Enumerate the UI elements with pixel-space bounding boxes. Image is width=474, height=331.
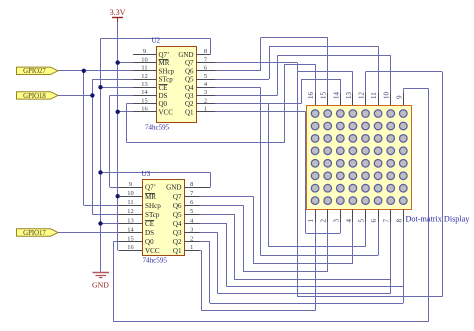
wire to matrix top pin 12 [365,72,367,93]
pin matrix bottom 6 [378,210,380,223]
pin U2.11 (SHcp) [133,70,156,72]
svg-text:Q6: Q6 [185,67,194,75]
pin matrix bottom 7 [390,210,392,223]
pin matrix top 15 [327,93,329,105]
wire U2 Q0 run [127,142,285,144]
wire GND top rail [101,38,211,40]
junction GND-U2 CE [98,85,102,89]
svg-text:11: 11 [141,65,147,72]
pin U2.3 (Q3) [196,95,215,97]
svg-text:12: 12 [141,73,147,80]
svg-text:5: 5 [190,208,193,215]
svg-text:2: 2 [320,219,328,223]
svg-text:6: 6 [190,199,193,206]
wire U2 Q5 up [269,46,271,79]
wire loop bottom rail [297,296,442,298]
svg-text:MR: MR [159,59,170,67]
wire STcp vertical [92,79,94,214]
svg-text:74hc595: 74hc595 [143,257,168,265]
wire U2 pin8 drop [210,38,212,54]
port GPIO17 [17,229,59,237]
wire to matrix top pin9 [403,88,428,90]
port GPIO27 [17,67,59,75]
svg-text:11: 11 [127,199,133,206]
pin U2.5 (Q5) [196,79,215,81]
svg-text:5: 5 [204,73,207,80]
svg-text:Q0: Q0 [159,100,168,108]
wire U2 Q5 out [215,79,269,81]
pin U3.12 (STcp) [119,214,143,216]
svg-text:Q4: Q4 [185,84,194,92]
pin U3.10 (MR) [119,196,143,198]
svg-text:Q5: Q5 [185,76,194,84]
pin matrix top 10 [390,93,392,105]
svg-text:16: 16 [127,244,133,251]
pin U3.3 (Q3) [184,232,200,234]
svg-text:CE: CE [159,84,168,92]
svg-text:CE: CE [145,220,154,228]
svg-text:GND: GND [166,184,181,192]
wire to U3 SHcp [84,205,119,207]
svg-text:6: 6 [370,219,378,223]
wire right outer vertical [428,89,430,322]
pin U3.13 (CE) [119,223,143,225]
svg-text:Q0: Q0 [145,238,154,246]
svg-text:2: 2 [190,235,193,242]
wire bottom pin2 rise [327,222,329,272]
svg-text:3: 3 [190,226,193,233]
ic U2 body [157,47,197,123]
wire bottom outer rail [113,321,428,323]
wire GND vertical [100,38,102,271]
svg-text:14: 14 [127,226,134,233]
wire GPIO27 vertical [83,71,85,206]
wire U2 Q6 up [260,38,262,71]
wire rail to bottom pin6 [260,255,378,257]
wire bottom pin4 rise [352,222,354,264]
wire U3 Q7 out [200,196,254,198]
wire U3 Q4 rail [227,286,403,288]
svg-text:8: 8 [204,48,207,55]
wire rail to top pin12 [366,71,443,73]
wire 3.3V vertical [117,22,119,250]
svg-text:STcp: STcp [159,76,174,84]
wire U3 Q0 stub left [113,241,118,243]
wire rail to bottom pin5 [269,246,366,248]
wire U2 Q0 stub left [127,103,134,105]
svg-text:12: 12 [127,208,133,215]
wire U2 Q2 out [215,103,301,105]
pin matrix top 16 [315,93,317,105]
wire U2 Q2 up [301,79,303,104]
wire U2 Q6 out [215,70,261,72]
svg-text:GPIO17: GPIO17 [23,230,46,237]
svg-text:Q7: Q7 [185,59,194,67]
svg-text:15: 15 [127,235,133,242]
wire U3 Q7 down [253,196,255,264]
svg-text:8: 8 [395,219,403,223]
pin U2.6 (Q6) [196,70,215,72]
svg-text:Q7’: Q7’ [159,51,170,59]
pin matrix bottom 8 [403,210,405,223]
wire bottom pin6 rise [378,222,380,255]
svg-text:SHcp: SHcp [145,202,161,210]
ic U3 body [143,180,185,256]
wire rail to bottom pin3 [306,233,341,235]
svg-text:U2: U2 [152,37,161,45]
pin matrix top 11 [378,93,380,105]
wire GPIO17 to U3 DS [58,232,119,234]
junction 3.3V-U2 VCC [116,110,120,114]
junction 3.3V-U3 MR [116,194,120,198]
svg-text:14: 14 [332,92,340,100]
wire rail to top pin10 [277,55,390,57]
pin U2.2 (Q2) [196,103,215,105]
svg-text:16: 16 [307,92,315,100]
svg-text:10: 10 [127,190,133,197]
pin U3.6 (Q6) [184,205,200,207]
junction GND-U3 CE [98,221,102,225]
pin U2.8 (GND) [196,54,210,56]
wire bottom pin3 rise [340,222,342,233]
wire rail to top pin14 [301,79,340,81]
svg-text:Q2: Q2 [185,100,194,108]
svg-text:Q3: Q3 [173,229,182,237]
svg-text:15: 15 [141,97,147,104]
wire U3 Q6 down [243,205,245,271]
wire U2 Q3 out [215,95,277,97]
wire U3 Q3 out [200,232,218,234]
wire bottom pin1 rise [315,222,317,311]
pin matrix bottom 4 [352,210,354,223]
svg-text:13: 13 [345,92,353,100]
wire to matrix top pin 16 [315,64,317,93]
svg-text:7: 7 [383,219,391,223]
wire to matrix top pin 14 [340,79,342,93]
pin matrix bottom 3 [340,210,342,223]
svg-text:Q6: Q6 [173,202,182,210]
svg-text:12: 12 [358,92,366,100]
pin U2.14 (DS) [133,95,156,97]
wire bottom pin5 rise [365,222,367,247]
svg-text:Q5: Q5 [173,211,182,219]
wire U2 DS to U3 Q7' vertical [109,95,111,187]
wire U3 pin8 drop [210,172,212,187]
svg-text:Dot-matrix Display: Dot-matrix Display [406,215,471,224]
junction 3.3V-U2 MR [116,60,120,64]
wire loop right vertical [442,72,444,297]
svg-text:VCC: VCC [159,108,174,116]
wire GPIO18 horizontal [58,95,92,97]
svg-text:Q1: Q1 [173,247,182,255]
svg-text:1: 1 [307,219,315,223]
wire U3 Q4 down [226,224,228,287]
port GPIO18 [17,92,59,100]
pin U2.16 (VCC) [133,111,156,113]
junction GND-U3 GND [98,170,102,174]
pin U3.15 (Q0) [119,241,143,243]
svg-text:11: 11 [370,92,378,99]
pin U3.8 (GND) [184,187,210,189]
pin U3.14 (DS) [119,232,143,234]
pin U3.16 (VCC) [119,250,143,252]
pin matrix top 13 [352,93,354,105]
wire bottom pin7 rise [390,222,392,294]
pin U2.10 (MR) [133,62,156,64]
wire U3 Q2 down [209,242,211,304]
svg-text:74hc595: 74hc595 [145,124,170,132]
junction GPIO27 branch [82,69,86,73]
wire to matrix top pin 10 [390,55,392,93]
svg-text:4: 4 [345,219,353,223]
pin U3.7 (Q7) [184,196,200,198]
ground GND [92,273,109,290]
wire U2 Q0 rise [284,64,286,142]
wire U2 Q0 drop [126,104,128,143]
wire rail to bottom pin1 [201,310,315,312]
svg-text:2: 2 [204,97,207,104]
svg-text:MR: MR [145,193,156,201]
pin U2.7 (Q7) [196,62,215,64]
wire U2 DS horizontal [110,95,133,97]
svg-text:Q4: Q4 [173,220,182,228]
pin matrix top 14 [340,93,342,105]
wire 3.3V to U2 MR [118,62,133,64]
svg-text:14: 14 [141,89,148,96]
svg-text:GND: GND [92,281,109,290]
wire U3 Q1 out [200,250,202,252]
svg-text:SHcp: SHcp [159,67,175,75]
wire U3 Q5 rail [235,279,391,281]
wire U2 Q7 out [215,62,297,64]
wire U2 Q1 out [215,111,306,113]
wire U3 Q4 out [200,223,227,225]
wire to U2 STcp [92,79,133,81]
pin U3.4 (Q4) [184,223,200,225]
svg-text:5: 5 [358,219,366,223]
wire U2 Q3 up [277,55,279,95]
wire to matrix top pin 13 [352,72,354,93]
wire to matrix top pin 11 [378,46,380,93]
wire U3 Q3 down [217,233,219,294]
svg-text:STcp: STcp [145,211,160,219]
wire U3 Q2 out [200,241,210,243]
wire U3 Q0 vertical [113,242,115,322]
svg-text:DS: DS [145,229,154,237]
svg-text:9: 9 [129,181,132,188]
svg-text:3: 3 [332,219,340,223]
svg-text:GND: GND [178,51,193,59]
pin matrix bottom 5 [365,210,367,223]
svg-text:3: 3 [204,89,207,96]
dot-matrix body [307,106,412,210]
pin U3.5 (Q5) [184,214,200,216]
wire 3.3V to U2 VCC [118,111,133,113]
wire rail to bottom pin7 [218,293,391,295]
svg-text:6: 6 [204,65,207,72]
wire U3 Q5 out [200,214,235,216]
svg-text:Q2: Q2 [173,238,182,246]
svg-text:U3: U3 [142,170,151,178]
svg-text:13: 13 [141,81,147,88]
wire U3 Q1 down [201,250,203,310]
wire rail to top pin13 [297,71,353,73]
wire U3 Q5 down [234,214,236,280]
wire bottom pin8 rise [403,222,405,303]
svg-text:13: 13 [127,217,133,224]
svg-text:Q1: Q1 [185,108,194,116]
svg-text:GPIO18: GPIO18 [23,93,46,100]
pin U3.9 (Q7’) [119,187,143,189]
wire GND to U2 CE [101,87,134,89]
pin U3.11 (SHcp) [119,205,143,207]
wire mid descender B [268,104,270,247]
pin U2.9 (Q7’) [133,54,156,56]
pin U3.1 (Q1) [184,250,200,252]
svg-text:15: 15 [320,92,328,100]
pin U2.12 (STcp) [133,79,156,81]
wire GND to U3 GND branch [101,172,211,174]
wire U2 Q7 long vertical [297,63,299,297]
svg-text:9: 9 [143,48,146,55]
wire to matrix top pin 9 [403,89,405,93]
pin U2.15 (Q0) [133,103,156,105]
junction GPIO18 branch [90,93,94,97]
wire rail to top pin16 [285,64,315,66]
pin matrix top 12 [365,93,367,105]
pin matrix top 9 [403,93,405,105]
svg-text:9: 9 [395,95,403,99]
svg-text:3.3V: 3.3V [110,8,126,17]
wire U3 Q6 out [200,205,244,207]
wire U2 Q4 down [260,87,262,255]
svg-text:1: 1 [204,106,207,113]
svg-text:Q7’: Q7’ [145,184,156,192]
svg-text:Q3: Q3 [185,92,194,100]
wire GPIO27 to U2 SHcp [58,70,133,72]
svg-text:DS: DS [159,92,168,100]
wire rail to bottom pin4 [253,263,353,265]
svg-text:16: 16 [141,106,147,113]
svg-text:Q7: Q7 [173,193,182,201]
svg-text:1: 1 [190,244,193,251]
wire rail to top pin15 [261,37,328,39]
pin U2.1 (Q1) [196,111,215,113]
wire to U3 Q7' [110,187,119,189]
wire to U3 STcp [92,214,118,216]
pin U2.13 (CE) [133,87,156,89]
pin matrix bottom 2 [327,210,329,223]
dot-matrix LED grid 8x8 [311,110,407,205]
wire rail to bottom pin2 [243,271,328,273]
svg-text:GPIO27: GPIO27 [23,68,46,75]
wire to matrix top pin 15 [327,38,329,94]
svg-text:8: 8 [190,181,193,188]
wire rail to bottom pin8 [210,303,403,305]
svg-text:10: 10 [383,92,391,100]
wire GND to U3 CE [101,223,119,225]
power 3.3V [110,8,126,22]
wire U2 Q4 out [215,87,260,89]
wire rail to top pin11 [269,46,378,48]
wire U2 Q1 down [305,112,307,233]
pin matrix bottom 1 [315,210,317,223]
pin U2.4 (Q4) [196,87,215,89]
pin U3.2 (Q2) [184,241,200,243]
svg-text:10: 10 [141,56,147,63]
svg-text:VCC: VCC [145,247,160,255]
